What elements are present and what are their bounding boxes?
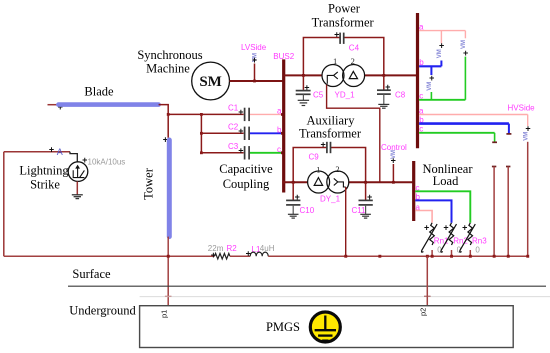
svg-text:a: a: [277, 107, 282, 116]
svg-text:C11: C11: [352, 206, 367, 215]
label Tower: [142, 167, 156, 200]
faint underground line: [140, 296, 550, 298]
svg-text:+: +: [439, 41, 444, 51]
node c label HV: [419, 125, 423, 134]
transformer YD_1: [322, 56, 365, 100]
svg-text:Transformer: Transformer: [299, 127, 362, 141]
label Surface: [72, 267, 111, 281]
label Capacitive Coupling: [219, 162, 273, 191]
label LVSide: [241, 43, 267, 52]
svg-text:Surface: Surface: [72, 267, 111, 281]
wire blade left stub: [48, 104, 58, 106]
wire HV phase b: [419, 124, 511, 134]
svg-text:2: 2: [351, 56, 355, 66]
node a label NL: [416, 203, 421, 212]
capacitor C4: [334, 29, 360, 52]
node + at A: [49, 145, 54, 155]
svg-text:4uH: 4uH: [260, 244, 275, 253]
value 4uH: [260, 244, 275, 253]
node p1: [160, 296, 172, 318]
wire ground run right: [268, 255, 529, 258]
svg-text:C4: C4: [349, 44, 360, 53]
node + L1: [246, 248, 251, 258]
wire NL phase a: [415, 211, 432, 223]
ground C11: [360, 205, 371, 218]
tower transmission line bar: [167, 140, 172, 237]
label Underground: [69, 304, 136, 318]
capacitor C1: [228, 104, 249, 122]
wire lightning left rail vertical: [3, 152, 5, 256]
inductor L1: [250, 245, 268, 256]
svg-text:Machine: Machine: [146, 62, 190, 76]
node + blade left: [58, 102, 63, 112]
resistor Rn2 nonlinear: [441, 223, 469, 255]
svg-text:C5: C5: [313, 91, 324, 100]
node + Control: [391, 156, 396, 166]
svg-text:1: 1: [333, 56, 337, 66]
wire tower bottom to p1 junction: [167, 237, 169, 306]
label Nonlinear Load: [423, 162, 474, 188]
wire lightning A rail horizontal: [4, 151, 70, 153]
wire tower tap row a: [167, 113, 244, 116]
wire phase a to BUS2: [250, 113, 284, 116]
wire row b: [200, 132, 244, 135]
machine SM circle: [192, 62, 230, 100]
meter VM bc: [427, 66, 434, 100]
meter VM ab: [437, 31, 444, 67]
svg-text:p1: p1: [160, 310, 169, 318]
svg-text:Strike: Strike: [30, 178, 60, 192]
wire Rn2 to ground wire: [451, 250, 453, 256]
svg-text:Blade: Blade: [84, 85, 114, 99]
wire phase b to BUS2: [250, 132, 284, 135]
node + LVSide: [252, 55, 257, 65]
svg-text:+: +: [49, 145, 54, 155]
wire p2 drop: [426, 256, 428, 306]
svg-text:0: 0: [475, 245, 480, 254]
svg-text:p2: p2: [419, 308, 428, 316]
node p2: [419, 296, 431, 316]
wire between R2 and L1: [230, 255, 250, 257]
svg-text:Synchronous: Synchronous: [137, 48, 202, 62]
wire VM HVa to ground wire: [527, 142, 529, 256]
svg-text:VM: VM: [524, 132, 530, 141]
ground lightning: [72, 195, 83, 199]
wire LVSide tap: [253, 64, 256, 83]
value 10kA/10us: [88, 157, 126, 166]
capacitor C8: [377, 75, 406, 99]
svg-text:Transformer: Transformer: [312, 16, 375, 30]
svg-text:b: b: [277, 126, 282, 135]
node b label: [277, 126, 282, 135]
wire NL phase c: [415, 191, 470, 223]
label HVSide: [508, 104, 536, 113]
svg-text:SM: SM: [199, 74, 222, 90]
surface line: [68, 285, 546, 287]
wire source to ground: [76, 181, 78, 194]
meter VM LVSide: [253, 53, 259, 62]
wire aux secondary to load bus: [348, 181, 413, 183]
wire ground run left: [4, 255, 215, 258]
svg-text:C8: C8: [395, 91, 406, 100]
svg-text:DY_1: DY_1: [320, 194, 341, 203]
wire transformer secondary to HV bus: [365, 74, 418, 76]
surge current source circle: [68, 162, 88, 182]
svg-text:C1: C1: [228, 104, 239, 113]
wire bus2 to transformer primary: [284, 74, 322, 76]
svg-text:Underground: Underground: [69, 304, 136, 318]
svg-text:10kA/10us: 10kA/10us: [88, 157, 126, 166]
wire Rn3 to ground wire: [469, 250, 471, 256]
wire HV phase c: [419, 133, 497, 143]
wire Control tap: [392, 164, 395, 184]
node a label HV: [419, 106, 424, 115]
capacitor C3: [228, 142, 249, 160]
ground C8: [378, 94, 389, 108]
svg-text:+: +: [429, 73, 434, 83]
ground C10: [288, 205, 299, 218]
wire YD_1 neutral path: [327, 85, 380, 183]
node a label: [277, 107, 282, 116]
capacitor C5: [296, 75, 324, 99]
svg-text:Tower: Tower: [142, 167, 156, 200]
svg-text:+: +: [238, 107, 243, 117]
svg-text:C10: C10: [300, 206, 315, 215]
svg-text:Power: Power: [328, 2, 361, 16]
wire A to lightning source: [70, 152, 77, 162]
wire phase c top: [419, 99, 465, 101]
node A: [57, 147, 63, 157]
svg-text:C2: C2: [228, 123, 239, 132]
capacitor C9 bypass loop: [292, 148, 367, 184]
svg-text:+: +: [424, 223, 429, 233]
resistor Rn3 nonlinear: [460, 223, 488, 255]
wire NL phase b: [415, 200, 451, 222]
label BUS2: [273, 52, 294, 61]
node c label NL: [416, 184, 420, 193]
capacitor C11: [352, 182, 373, 215]
node c label top: [419, 92, 423, 101]
svg-text:+: +: [463, 48, 468, 58]
svg-text:+: +: [238, 126, 243, 136]
ground C5: [298, 94, 309, 105]
wire SM to BUS2: [230, 80, 284, 82]
bus HV: [416, 13, 419, 148]
wire phase b top: [419, 65, 441, 67]
svg-text:c: c: [277, 145, 281, 154]
wire blade to tower corner: [159, 105, 169, 138]
capacitor C9: [309, 139, 331, 161]
svg-text:R2: R2: [227, 244, 238, 253]
svg-text:YD_1: YD_1: [335, 91, 356, 100]
svg-text:+: +: [238, 145, 243, 155]
meter VM ac: [461, 31, 468, 100]
wire DY_1 neutral down: [345, 187, 347, 256]
svg-text:Coupling: Coupling: [223, 177, 270, 191]
svg-text:VM: VM: [427, 82, 433, 91]
svg-text:+: +: [462, 223, 467, 233]
svg-text:BUS2: BUS2: [273, 52, 294, 61]
resistor R2: [211, 244, 238, 260]
node + tower top: [163, 135, 168, 145]
transformer DY_1: [308, 164, 349, 203]
label PMGS: [266, 320, 300, 334]
capacitor C10: [286, 182, 315, 215]
svg-text:C3: C3: [228, 142, 239, 151]
label Lightning Strike: [19, 163, 69, 191]
svg-text:Lightning: Lightning: [19, 163, 69, 177]
svg-text:VM: VM: [437, 49, 443, 58]
label Blade: [84, 85, 114, 99]
meter VM HVa: [524, 124, 531, 141]
bus BUS2: [282, 59, 285, 192]
label Auxiliary Transformer: [299, 114, 362, 141]
label Power Transformer: [312, 2, 375, 30]
svg-text:Capacitive: Capacitive: [219, 162, 273, 176]
wire phase a top: [419, 30, 465, 32]
svg-text:PMGS: PMGS: [266, 320, 300, 334]
bus nonlinear load: [412, 161, 415, 221]
capacitor C2: [228, 123, 249, 141]
svg-text:HVSide: HVSide: [508, 104, 536, 113]
wire Rn1 to ground wire: [431, 250, 433, 256]
svg-text:1: 1: [316, 165, 320, 175]
meter VM Control: [391, 150, 397, 159]
wire coupling left vertical: [200, 114, 202, 152]
value 22m: [208, 244, 224, 253]
capacitor C4 bypass loop: [302, 38, 385, 77]
svg-text:A: A: [57, 147, 63, 157]
resistor Rn1 nonlinear: [422, 223, 450, 255]
protective earth emblem: [310, 312, 340, 342]
svg-text:Auxiliary: Auxiliary: [307, 114, 356, 128]
svg-text:C9: C9: [309, 153, 320, 162]
wire ground return 2: [506, 167, 510, 257]
node + source: [82, 155, 87, 165]
wire phase c to BUS2: [250, 151, 284, 154]
node b label HV: [419, 116, 424, 125]
svg-text:LVSide: LVSide: [241, 43, 267, 52]
svg-text:Load: Load: [433, 174, 459, 188]
wire bus2 to aux primary: [282, 181, 307, 184]
svg-text:+: +: [320, 139, 325, 149]
wire ground return 1: [492, 167, 496, 257]
box PMGS: [140, 306, 514, 348]
node a label top: [419, 23, 424, 32]
wire HV phase a: [419, 115, 528, 127]
svg-text:+: +: [334, 29, 339, 39]
wire row c: [200, 151, 244, 154]
node c label: [277, 145, 281, 154]
label Synchronous Machine: [137, 48, 202, 76]
node b label NL: [416, 193, 421, 202]
label Control: [381, 143, 407, 152]
node b label top: [419, 58, 424, 67]
svg-text:+: +: [443, 223, 448, 233]
blade transmission line bar: [58, 102, 158, 107]
svg-text:2: 2: [335, 164, 339, 174]
